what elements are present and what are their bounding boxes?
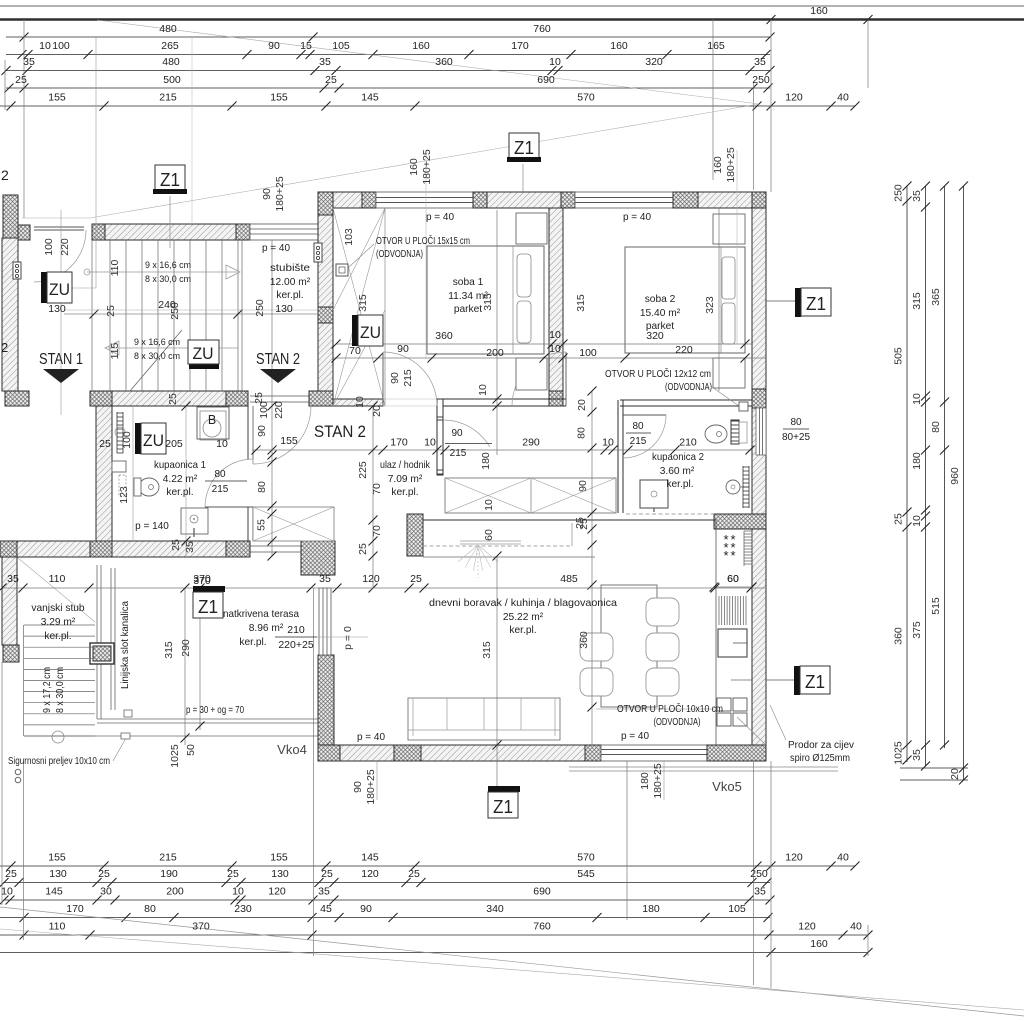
svg-text:220+25: 220+25 [278,639,313,651]
svg-text:760: 760 [533,23,551,35]
svg-text:190: 190 [160,868,178,880]
svg-text:220: 220 [273,401,285,419]
door marker ZU hallway [352,315,358,346]
svg-text:200: 200 [166,886,184,898]
svg-text:160: 160 [412,40,430,52]
dim fraction 80/215 kupaonica2 door [626,432,651,434]
svg-text:10: 10 [1,886,13,898]
svg-text:Linijska slot kanalica: Linijska slot kanalica [120,600,131,689]
svg-text:170: 170 [390,437,408,449]
wall terrace top band [0,541,17,557]
svg-text:760: 760 [533,921,551,933]
electrical box stubiste right wall [314,243,322,262]
svg-text:160: 160 [810,938,828,950]
svg-text:290: 290 [180,639,192,657]
washbasin kupaonica2 [726,480,740,494]
svg-text:290: 290 [522,437,540,449]
svg-text:25: 25 [105,305,117,317]
top dimension row 25 500 25 690 250 [6,87,770,89]
electrical box stair left [13,262,21,279]
svg-text:OTVOR U PLOČI 15x15 cm: OTVOR U PLOČI 15x15 cm [376,236,470,247]
wall soba2 south thin [620,399,752,401]
svg-text:100: 100 [43,238,55,256]
svg-text:500: 500 [163,74,181,86]
svg-text:215: 215 [159,852,177,864]
svg-text:p = 40: p = 40 [426,212,455,223]
svg-text:25: 25 [893,513,905,525]
kitchen cabinet divider [731,679,752,681]
top dimension row 480/760/160 [6,36,770,38]
svg-text:10: 10 [549,56,561,68]
svg-text:340: 340 [486,903,504,915]
dim vertical x592 [591,391,593,745]
toilet kupaonica1 [139,478,159,496]
svg-text:80: 80 [256,481,268,493]
svg-text:960: 960 [949,467,961,485]
door stan2 entry leaf+arc [252,406,254,464]
svg-text:180+25: 180+25 [421,149,433,184]
svg-text:375: 375 [911,621,923,639]
svg-text:Z1: Z1 [198,597,218,617]
svg-text:155: 155 [48,852,66,864]
svg-text:1025: 1025 [893,741,905,765]
stair break line [130,330,182,391]
svg-text:kupaonica 2: kupaonica 2 [652,452,704,463]
wall apartment top [333,192,362,208]
dim fraction 210/220+25 terrace [275,636,317,638]
svg-text:90: 90 [397,343,409,355]
wall living south [318,745,340,761]
svg-text:315: 315 [911,292,923,310]
svg-text:kupaonica 1: kupaonica 1 [154,460,206,471]
landing dim extension [60,210,62,415]
drain kitchen leader [596,708,714,710]
svg-text:180+25: 180+25 [725,147,737,182]
right dimension line col 960 20 [963,186,965,780]
svg-text:145: 145 [361,92,379,104]
svg-text:9 x 16,6 cm: 9 x 16,6 cm [145,260,191,271]
right dimension line col 35 315 10 180 10 375 35 [925,186,927,766]
svg-text:10: 10 [477,384,489,396]
svg-text:35: 35 [184,541,196,553]
svg-text:9 x 16,6 cm: 9 x 16,6 cm [134,337,180,348]
dim line y588 living width [2,587,766,589]
svg-text:20: 20 [371,405,383,417]
stair landing edge line [91,240,93,390]
dim vertical terrace x185 x200 [184,588,186,745]
wall apartment right [752,208,766,745]
toilet kupaonica2 [705,425,727,443]
svg-text:dnevni boravak / kuhinja / bla: dnevni boravak / kuhinja / blagovaonica [429,598,617,609]
door marker ZU stair mid [189,363,219,369]
washbasin kupaonica1 [112,461,126,472]
svg-text:soba 1: soba 1 [453,277,484,288]
dim line y358 bedrooms inner [333,357,766,359]
svg-text:80: 80 [144,903,156,915]
door threshold terrace-hall [250,545,301,547]
svg-text:570: 570 [577,852,595,864]
exterior stairs [24,624,95,626]
svg-text:p = 40: p = 40 [623,212,652,223]
svg-text:690: 690 [537,74,555,86]
svg-text:70: 70 [371,483,383,495]
dining chairs right [646,598,679,626]
svg-text:320: 320 [645,56,663,68]
svg-text:25: 25 [325,74,337,86]
shower kupaonica2 [640,480,668,508]
svg-text:120: 120 [361,868,379,880]
svg-text:*: * [723,548,728,563]
svg-text:100: 100 [258,401,270,419]
svg-text:35: 35 [754,886,766,898]
right dimension line col 365 80 515 [944,186,946,748]
svg-text:110: 110 [49,573,66,585]
svg-text:80: 80 [214,469,226,480]
dim fraction 80/80+25 right wall window [783,428,809,430]
svg-text:100: 100 [579,347,597,359]
svg-text:3.60 m²: 3.60 m² [660,466,695,477]
svg-text:ZU: ZU [143,431,164,450]
svg-text:50: 50 [185,744,197,756]
svg-text:ker.pl.: ker.pl. [391,487,418,498]
svg-text:180: 180 [911,452,923,470]
wall bedrooms south - middle segment thin [443,398,566,400]
svg-text:210: 210 [679,437,697,449]
dim fraction 90/215 corridor door [445,443,492,445]
kitchen lower cabinets 2x2 [717,698,731,711]
dim vertical kupaonica1 x186 [185,406,187,556]
svg-text:p = 0: p = 0 [342,626,354,650]
svg-text:12.00 m²: 12.00 m² [270,277,311,288]
bottom dimension row 25 130 25 190 25 130 25 120 25 545 250 [4,882,770,884]
svg-text:OTVOR U PLOČI 10x10 cm: OTVOR U PLOČI 10x10 cm [617,704,723,715]
svg-text:155: 155 [280,435,298,447]
wall kupaonica1 right [247,406,249,459]
bottom dimension row 10 145 30 200 10 120 35 690 35 [4,899,770,901]
svg-text:ulaz / hodnik: ulaz / hodnik [380,460,431,471]
svg-text:7.09 m²: 7.09 m² [388,474,423,485]
svg-text:160: 160 [712,156,724,174]
stair treads [109,240,111,391]
vanjski stub diagonal [18,558,95,622]
pendant fan over island [460,540,521,542]
svg-text:(ODVODNJA): (ODVODNJA) [665,382,712,393]
door kupaonica1 [205,506,253,508]
svg-text:155: 155 [270,852,288,864]
svg-text:10: 10 [602,437,614,449]
wall stair left lower [2,238,18,391]
svg-text:ker.pl.: ker.pl. [276,290,303,301]
svg-text:70: 70 [349,345,361,357]
kitchen north line [423,519,716,521]
svg-text:Prodor za cijev: Prodor za cijev [788,740,854,751]
corridor door arc [443,420,490,447]
svg-text:250: 250 [750,868,768,880]
svg-text:570: 570 [577,92,595,104]
bottom dimension row 155 215 155 145 570 120 40 [0,865,855,867]
section marker Z1 right [766,300,795,302]
svg-text:ker.pl.: ker.pl. [509,625,536,636]
svg-text:25: 25 [15,74,27,86]
svg-text:165: 165 [707,40,725,52]
svg-text:ker.pl.: ker.pl. [166,487,193,498]
svg-text:90: 90 [268,40,280,52]
prodor za cijev leader [770,705,786,740]
svg-text:B: B [208,413,216,427]
svg-text:155: 155 [270,92,288,104]
bed soba2 [625,247,745,353]
top thick section line [0,18,1024,20]
kitchen dishwasher stripes [719,596,746,625]
svg-text:Z1: Z1 [806,294,826,314]
wall stair top [105,224,236,240]
svg-text:25: 25 [167,393,179,405]
kitchen island front edge [423,556,595,558]
svg-text:90: 90 [352,781,364,793]
towel radiator kupaonica2 [743,467,749,507]
svg-text:120: 120 [798,921,816,933]
svg-text:60: 60 [483,529,495,541]
svg-text:8 x 30,0 cm: 8 x 30,0 cm [145,274,191,285]
svg-text:180+25: 180+25 [365,769,377,804]
svg-text:215: 215 [212,484,229,495]
svg-text:180+25: 180+25 [274,176,286,211]
svg-text:220: 220 [59,238,71,256]
svg-text:120: 120 [785,92,803,104]
svg-text:170: 170 [66,903,84,915]
dim line y450 corridor chain [252,449,752,451]
svg-text:370: 370 [192,921,210,933]
svg-text:220: 220 [675,344,693,356]
section marker Z1 bottom [496,556,498,786]
kitchen dim 60 [714,586,752,588]
svg-text:370: 370 [193,575,211,587]
svg-text:8.96 m²: 8.96 m² [249,623,284,634]
top boundary line [0,5,1024,7]
corridor door frame pier [437,399,443,475]
svg-text:11.34 m²: 11.34 m² [448,291,488,302]
svg-text:90: 90 [256,425,268,437]
svg-text:215: 215 [450,448,467,459]
svg-text:p = 40: p = 40 [262,243,291,254]
nightstand soba1 bottom [516,358,547,390]
svg-text:160: 160 [408,158,420,176]
wall apartment left / stairwell right [318,215,333,391]
wall stair block top-left corner [3,195,18,240]
svg-text:360: 360 [893,627,905,645]
top dimension row 10 100 265 90 15 105 160 170 160 165 [6,54,770,56]
nightstand soba2 bottom [713,358,745,388]
svg-text:90: 90 [261,188,273,200]
dim vertical kupaonica1 x133 [132,406,134,541]
svg-text:365: 365 [930,288,942,306]
svg-text:10: 10 [911,393,923,405]
window stair top [250,224,318,240]
terrace door living room [319,588,331,655]
svg-text:ker.pl.: ker.pl. [666,479,693,490]
svg-text:25: 25 [227,868,239,880]
wall kupaonica2 left [617,400,619,513]
svg-text:100: 100 [52,40,70,52]
window dim labels rotated top [425,150,427,358]
svg-text:ZU: ZU [193,344,214,363]
svg-text:30: 30 [100,886,112,898]
svg-text:35: 35 [911,749,923,761]
window kupaonica2 right wall [756,408,766,455]
svg-text:130: 130 [49,868,67,880]
sill lines below Vko5 [569,766,838,768]
svg-text:115: 115 [109,342,121,359]
svg-text:485: 485 [560,573,578,585]
svg-text:180: 180 [480,452,492,470]
svg-text:Z1: Z1 [805,672,825,692]
wall terrace left [2,557,17,645]
svg-text:25: 25 [170,539,182,551]
bottom dimension row 160 [0,952,868,954]
svg-text:*: * [730,548,735,563]
svg-text:STAN 2: STAN 2 [314,422,366,441]
svg-text:70: 70 [371,525,383,537]
small circles oo [15,769,21,775]
svg-text:60: 60 [727,573,739,585]
svg-text:35: 35 [319,573,331,585]
svg-text:25: 25 [408,868,420,880]
dim vertical x272 entry [271,240,273,556]
porch line top left [22,217,90,219]
svg-text:205: 205 [165,438,183,450]
svg-text:20: 20 [576,399,588,411]
svg-text:105: 105 [728,903,746,915]
svg-text:20: 20 [949,768,961,780]
svg-text:(ODVODNJA): (ODVODNJA) [654,717,701,728]
stair walking line lower with arrow [108,347,238,349]
bottom dimension row 170 80 230 45 90 340 180 105 [0,917,770,919]
svg-text:Vko4: Vko4 [277,742,307,757]
svg-text:1025: 1025 [169,744,181,768]
wardrobe hallway with X [445,478,616,513]
dim vertical x373 hallway [372,406,374,588]
svg-text:315: 315 [575,294,587,312]
svg-text:ZU: ZU [49,280,70,299]
svg-text:160: 160 [610,40,628,52]
wall living SW pillar [318,655,334,745]
svg-text:vanjski stub: vanjski stub [31,603,85,614]
svg-text:10: 10 [216,438,228,450]
door kupaonica2 [623,414,666,416]
svg-text:Z1: Z1 [514,138,534,158]
niche X-box hallway south [253,507,334,541]
svg-text:210: 210 [287,624,305,636]
dim vertical x497 soba1 [496,210,498,455]
svg-text:80: 80 [632,421,644,432]
svg-text:ker.pl.: ker.pl. [44,631,71,642]
svg-text:25.22 m²: 25.22 m² [503,612,544,623]
svg-text:110: 110 [109,259,121,276]
svg-text:25: 25 [5,868,17,880]
svg-text:480: 480 [162,56,180,68]
dining table [601,585,657,707]
soba1 door threshold lines [383,398,437,400]
svg-text:170: 170 [511,40,529,52]
svg-text:p = 40: p = 40 [357,732,386,743]
dim line y344 bedrooms width [336,343,752,345]
svg-text:123: 123 [118,486,130,504]
svg-text:120: 120 [785,852,803,864]
wall kupaonica2 bottom crosshatch [714,514,766,529]
svg-text:STAN 1: STAN 1 [39,351,83,368]
svg-text:10: 10 [911,515,923,527]
svg-text:25: 25 [321,868,333,880]
sofa living room [408,698,560,740]
svg-text:315: 315 [357,294,369,312]
wall stair bottom [5,391,29,406]
svg-text:Sigurnosni preljev 10x10 cm: Sigurnosni preljev 10x10 cm [8,756,110,767]
svg-text:145: 145 [45,886,63,898]
linear slot channel [110,568,112,710]
door ZU1 stairwell entry leaf [34,226,84,228]
door soba1 [382,352,384,406]
svg-text:natkrivena terasa: natkrivena terasa [223,609,299,620]
sigurnosni preljev label [113,738,126,761]
svg-text:103: 103 [343,228,355,246]
svg-text:180: 180 [642,903,660,915]
svg-text:250: 250 [893,184,905,202]
svg-text:100: 100 [121,431,133,449]
marker B box shower [197,407,229,439]
svg-text:250: 250 [254,299,266,317]
svg-text:80: 80 [576,427,588,439]
svg-text:ZU: ZU [360,323,381,342]
dim vertical x590 soba2 via x592 and x719 [718,208,720,391]
top extension lines [23,20,25,219]
nightstand soba2 top [713,214,745,244]
dining chairs left [580,633,613,661]
svg-text:80: 80 [930,421,942,433]
bottom extension lines [23,761,25,940]
svg-text:8 x 30,0 cm: 8 x 30,0 cm [134,351,180,362]
svg-text:130: 130 [48,303,66,315]
right dimension line col 250 505 25 360 1025 [906,186,908,762]
svg-text:40: 40 [850,921,862,933]
kitchen counter line [715,520,717,745]
svg-text:180+25: 180+25 [652,763,664,798]
svg-text:35: 35 [7,573,19,585]
svg-text:90: 90 [360,903,372,915]
svg-text:15.40 m²: 15.40 m² [640,308,681,319]
window soba1 [376,192,473,208]
svg-text:160: 160 [810,5,828,17]
kitchen sink [718,629,747,657]
top dimension row 155 215 155 145 570 120 40 [0,105,855,107]
svg-text:35: 35 [23,56,35,68]
wall partition soba1-soba2 [549,208,563,391]
svg-text:10: 10 [483,499,495,511]
svg-text:35: 35 [754,56,766,68]
svg-text:10: 10 [232,886,244,898]
terrace slab edge [96,565,98,719]
svg-text:Z1: Z1 [493,797,513,817]
washing machine kupaonica1 [181,508,208,534]
wall stub hallway-living [407,514,423,556]
svg-text:10: 10 [354,396,366,408]
svg-text:690: 690 [533,886,551,898]
svg-text:STAN 2: STAN 2 [256,351,300,368]
bottom dimension row 110 370 760 120 40 [0,934,868,936]
section marker Z1 bottom right [766,679,794,681]
svg-text:25: 25 [574,517,586,529]
svg-text:Vko5: Vko5 [712,779,742,794]
svg-text:515: 515 [930,597,942,615]
